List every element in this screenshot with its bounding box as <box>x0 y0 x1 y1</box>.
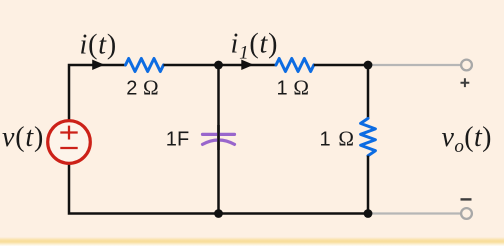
right branch upper wire <box>367 65 370 118</box>
svg-text:Ω: Ω <box>338 126 354 150</box>
gray wire: node B to + terminal <box>368 64 461 66</box>
terminal circle bottom right <box>461 208 472 219</box>
svg-text:1: 1 <box>320 128 331 150</box>
current arrow i1(t) <box>242 60 253 69</box>
bottom wire <box>69 164 368 214</box>
minus sign at output <box>461 198 472 200</box>
svg-text:Ω: Ω <box>143 75 159 99</box>
svg-text:Ω: Ω <box>293 75 309 99</box>
voltage source plus sign <box>60 126 77 140</box>
capacitor 1F bottom curved plate <box>203 140 235 144</box>
svg-text:F: F <box>177 128 189 150</box>
resistor 2 ohm (horizontal zigzag) <box>126 59 164 72</box>
plus sign at output <box>461 78 470 87</box>
resistor 1 ohm top (horizontal zigzag) <box>276 59 314 72</box>
svg-text:2: 2 <box>126 77 137 99</box>
capacitor 1F top plate <box>203 133 235 136</box>
wire: top-left from source to R1 <box>69 65 126 121</box>
node dot bottom right <box>364 209 373 218</box>
voltage source v(t) circle <box>48 121 91 164</box>
node A dot top <box>214 61 223 70</box>
capacitor branch upper wire <box>217 65 220 214</box>
current arrow i(t) <box>93 60 104 69</box>
resistor 1 ohm right (vertical zigzag) <box>361 118 376 155</box>
wire: R1 to node A <box>164 64 219 67</box>
node B dot top <box>364 61 373 70</box>
svg-text:vo(t): vo(t) <box>442 122 492 157</box>
svg-text:v(t): v(t) <box>2 122 44 153</box>
capacitor wire overlay <box>217 125 220 150</box>
terminal circle top right <box>461 60 472 71</box>
voltage source minus sign <box>60 147 77 149</box>
gray wire: bottom node to - terminal <box>368 212 461 214</box>
svg-text:i1(t): i1(t) <box>231 29 279 64</box>
right branch lower wire <box>367 156 370 214</box>
wire: R2 to node B <box>314 64 368 67</box>
node dot bottom middle <box>214 209 223 218</box>
svg-text:1: 1 <box>166 128 177 150</box>
wire: node A to R2 with arrow <box>219 64 277 67</box>
svg-text:i(t): i(t) <box>80 30 117 61</box>
svg-text:1: 1 <box>277 77 288 99</box>
